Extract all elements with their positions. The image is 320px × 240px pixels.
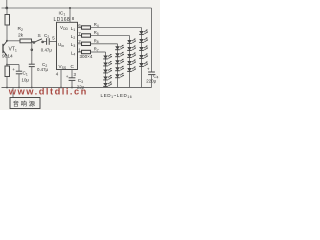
wire audio box to rail [12, 88, 14, 98]
LED7 [115, 52, 124, 57]
resistor R1 [5, 8, 10, 41]
wire right edge drop to C4 [151, 8, 153, 72]
capacitor C1 10u [12, 65, 22, 88]
IC U1 LD168 body [57, 22, 78, 69]
svg-text:R6: R6 [94, 38, 99, 44]
wire L4 bus [91, 51, 106, 53]
LED3 [103, 68, 112, 73]
wire column 1 [105, 52, 107, 88]
LED18 [139, 46, 148, 51]
node emitter junction [6, 64, 8, 66]
transistor VT1 9014 [3, 41, 7, 56]
wire L1 bus [91, 27, 142, 29]
LED column 4 [139, 28, 148, 88]
LED9 [115, 66, 124, 71]
wire L2 bus [91, 35, 130, 37]
svg-text:+: + [147, 66, 150, 71]
LED4 [103, 75, 112, 80]
LED20 [139, 62, 148, 67]
wire bottom rail overlay [2, 87, 152, 89]
LED14 [127, 60, 136, 65]
svg-text:R4: R4 [94, 22, 99, 28]
svg-text:R5: R5 [94, 30, 99, 36]
wire emitter to C1 [7, 64, 19, 66]
capacitor C3 22u [66, 70, 76, 88]
LED17 [139, 38, 148, 43]
svg-text:S: S [38, 33, 41, 39]
wire emitter down [6, 56, 8, 65]
capacitor C3 0.47u series [47, 38, 57, 45]
LED13 [127, 53, 136, 58]
paper background [0, 0, 160, 110]
LED11 [127, 39, 136, 44]
resistor R7 [78, 50, 91, 53]
svg-text:9014: 9014 [2, 54, 13, 60]
svg-text:音响源: 音响源 [13, 100, 37, 108]
resistor R4 [78, 26, 91, 29]
svg-text:220μ: 220μ [146, 79, 156, 84]
node rail junction at C3 [71, 87, 73, 89]
svg-text:+: + [66, 74, 69, 79]
node branch junction [31, 41, 33, 43]
resistor R2 2k [7, 39, 34, 43]
wire bottom ground rail [2, 87, 152, 89]
wire shunt branch upper [31, 42, 33, 49]
capacitor C2 0.47u shunt [29, 51, 35, 88]
svg-text:0.47μ: 0.47μ [37, 67, 49, 72]
svg-text:+: + [12, 67, 15, 72]
svg-text:0.47μ: 0.47μ [41, 48, 53, 53]
LED5 [103, 82, 112, 87]
wire L3 bus [91, 43, 118, 45]
capacitor C4 220u [147, 66, 155, 87]
LED column 3 [127, 36, 136, 88]
node VDD rail junction [69, 7, 71, 9]
wire top supply rail [2, 7, 152, 9]
LED16 [139, 30, 148, 35]
LED8 [115, 59, 124, 64]
svg-text:LD168: LD168 [54, 17, 70, 23]
LED19 [139, 54, 148, 59]
audio source box [10, 98, 40, 109]
wire column 2 [117, 44, 119, 88]
svg-text:R7: R7 [94, 47, 99, 53]
wire switch to C2 [43, 41, 46, 43]
LED2 [103, 61, 112, 66]
LED6 [115, 45, 124, 50]
node rail junction at C1 [18, 87, 20, 89]
resistor R5 [78, 34, 91, 37]
circuit drawing group [2, 0, 159, 109]
LED12 [127, 46, 136, 51]
LED15 [127, 67, 136, 72]
LED column 2 [115, 44, 124, 88]
switch S [33, 39, 43, 43]
LED1 [103, 54, 112, 59]
wire column 4 [141, 28, 143, 88]
node +V supply terminal [5, 0, 8, 9]
svg-text:2k: 2k [18, 33, 24, 39]
node rail junction at VSS [60, 87, 62, 89]
svg-text:300×4: 300×4 [80, 54, 93, 59]
resistor R6 [78, 42, 91, 45]
svg-text:10μ: 10μ [22, 78, 30, 83]
LED10 [115, 73, 124, 78]
LED column 1 [103, 52, 112, 88]
node branch contact [31, 49, 33, 51]
wire VDD pin to rail [69, 8, 71, 22]
wire column 3 [129, 36, 131, 88]
node collector junction [6, 40, 8, 42]
node rail junction at C2 [31, 87, 33, 89]
resistor R3 emitter resistor [5, 65, 10, 88]
node rail junction at R3 [6, 87, 8, 89]
wire VSS pin 4 to rail [60, 70, 62, 88]
